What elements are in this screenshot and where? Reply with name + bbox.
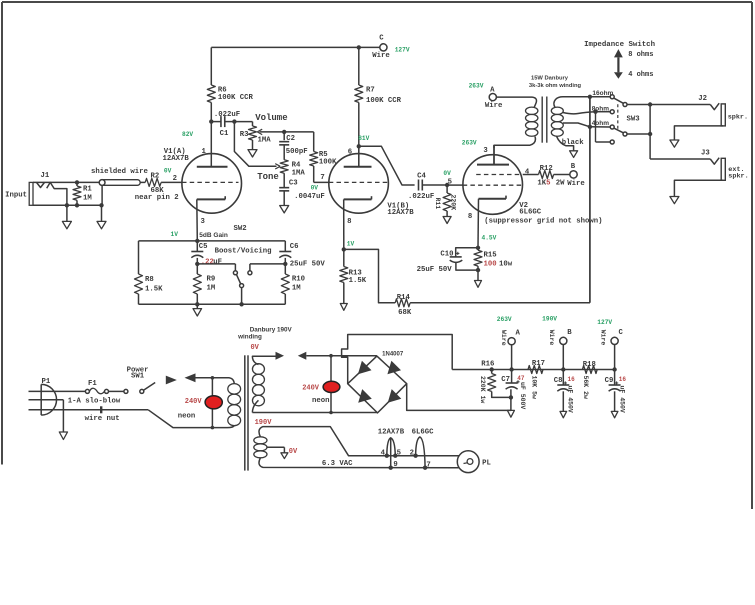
svg-text:220K: 220K bbox=[449, 195, 456, 211]
svg-text:C4: C4 bbox=[417, 173, 426, 181]
svg-text:190V: 190V bbox=[542, 316, 557, 323]
svg-text:8: 8 bbox=[347, 218, 351, 226]
svg-text:82V: 82V bbox=[182, 131, 193, 138]
svg-text:SW1: SW1 bbox=[131, 373, 145, 381]
svg-text:C6: C6 bbox=[290, 243, 299, 251]
svg-text:R15: R15 bbox=[484, 251, 497, 259]
svg-text:R2: R2 bbox=[151, 173, 160, 181]
svg-text:10w: 10w bbox=[499, 261, 513, 269]
svg-text:.022uF: .022uF bbox=[214, 111, 240, 119]
svg-text:Input: Input bbox=[5, 191, 27, 199]
svg-text:R5: R5 bbox=[319, 151, 328, 159]
svg-text:4.5V: 4.5V bbox=[482, 235, 497, 242]
svg-text:56K 2w: 56K 2w bbox=[582, 376, 589, 400]
svg-text:SW3: SW3 bbox=[627, 116, 641, 124]
svg-text:Wire: Wire bbox=[600, 330, 607, 346]
svg-text:8ohm: 8ohm bbox=[592, 105, 610, 112]
svg-text:240V: 240V bbox=[185, 398, 203, 406]
svg-text:0V: 0V bbox=[311, 185, 319, 192]
svg-text:1V: 1V bbox=[171, 231, 179, 238]
svg-text:R18: R18 bbox=[583, 361, 596, 369]
svg-text:263V: 263V bbox=[469, 82, 484, 89]
svg-text:R10: R10 bbox=[292, 275, 305, 283]
svg-text:uF 450V: uF 450V bbox=[618, 386, 625, 413]
svg-text:Wire: Wire bbox=[485, 102, 503, 110]
svg-text:263V: 263V bbox=[497, 316, 512, 323]
svg-text:black: black bbox=[562, 139, 585, 147]
svg-text:220K 1w: 220K 1w bbox=[479, 376, 486, 403]
svg-text:7: 7 bbox=[320, 174, 324, 182]
svg-text:127V: 127V bbox=[395, 46, 410, 53]
svg-text:127V: 127V bbox=[597, 319, 612, 326]
svg-text:C5: C5 bbox=[199, 243, 208, 251]
svg-text:100: 100 bbox=[484, 261, 497, 269]
svg-text:near pin 2: near pin 2 bbox=[135, 194, 179, 202]
svg-text:PL: PL bbox=[482, 459, 491, 467]
svg-text:uF: uF bbox=[213, 258, 222, 266]
svg-text:R3: R3 bbox=[240, 131, 249, 139]
svg-text:R16: R16 bbox=[481, 361, 494, 369]
svg-text:F1: F1 bbox=[88, 380, 97, 388]
svg-text:2: 2 bbox=[410, 450, 414, 458]
svg-text:J1: J1 bbox=[41, 172, 50, 180]
svg-text:1.5K: 1.5K bbox=[145, 285, 163, 293]
svg-text:Tone: Tone bbox=[257, 172, 279, 182]
svg-text:5dB Gain: 5dB Gain bbox=[199, 232, 228, 239]
svg-text:3: 3 bbox=[201, 218, 206, 226]
svg-text:5: 5 bbox=[448, 178, 452, 186]
svg-text:Boost/Voicing: Boost/Voicing bbox=[215, 247, 272, 255]
svg-text:C1: C1 bbox=[220, 130, 229, 138]
svg-text:R7: R7 bbox=[366, 87, 375, 95]
svg-text:R12: R12 bbox=[540, 165, 553, 173]
svg-text:100K CCR: 100K CCR bbox=[218, 94, 254, 102]
svg-text:Wire: Wire bbox=[372, 52, 390, 60]
svg-text:6: 6 bbox=[348, 149, 352, 157]
svg-text:6L6GC: 6L6GC bbox=[519, 209, 542, 217]
svg-text:R1: R1 bbox=[83, 186, 92, 194]
svg-text:4: 4 bbox=[525, 168, 530, 176]
svg-text:0V: 0V bbox=[289, 448, 298, 456]
svg-text:(suppressor grid not shown): (suppressor grid not shown) bbox=[484, 217, 602, 225]
svg-text:C7: C7 bbox=[501, 376, 510, 384]
svg-text:Wire: Wire bbox=[548, 330, 555, 346]
svg-text:25uF 50V: 25uF 50V bbox=[417, 266, 453, 274]
svg-text:neon: neon bbox=[312, 397, 330, 405]
svg-text:A: A bbox=[516, 330, 521, 338]
svg-text:47: 47 bbox=[517, 375, 525, 382]
svg-text:C10: C10 bbox=[440, 250, 453, 258]
svg-text:1MA: 1MA bbox=[258, 136, 272, 144]
svg-text:5: 5 bbox=[546, 180, 550, 188]
svg-text:0V: 0V bbox=[164, 167, 172, 174]
svg-text:shielded wire: shielded wire bbox=[91, 168, 149, 176]
svg-text:1V: 1V bbox=[347, 241, 355, 248]
svg-text:1MA: 1MA bbox=[292, 170, 306, 178]
svg-text:16: 16 bbox=[619, 376, 627, 383]
svg-text:240V: 240V bbox=[302, 385, 320, 393]
svg-text:spkr.: spkr. bbox=[728, 113, 748, 121]
svg-text:7: 7 bbox=[426, 461, 430, 469]
svg-text:25uF 50V: 25uF 50V bbox=[290, 260, 326, 268]
svg-text:R9: R9 bbox=[207, 275, 216, 283]
svg-text:81V: 81V bbox=[358, 135, 369, 142]
svg-text:C: C bbox=[619, 329, 624, 337]
svg-text:1.5K: 1.5K bbox=[349, 277, 367, 285]
svg-text:4: 4 bbox=[381, 450, 386, 458]
svg-text:6.3 VAC: 6.3 VAC bbox=[322, 460, 353, 468]
svg-text:1-A slo-blow: 1-A slo-blow bbox=[68, 397, 121, 405]
svg-text:2W: 2W bbox=[556, 180, 565, 188]
svg-text:263V: 263V bbox=[462, 139, 477, 146]
svg-text:1M: 1M bbox=[83, 195, 92, 203]
svg-text:winding: winding bbox=[237, 334, 262, 341]
svg-text:1: 1 bbox=[202, 148, 207, 156]
svg-text:8: 8 bbox=[468, 213, 472, 221]
svg-text:12AX7B: 12AX7B bbox=[378, 429, 405, 437]
svg-text:Danbury 190V: Danbury 190V bbox=[250, 327, 293, 334]
svg-text:15W Danbury: 15W Danbury bbox=[531, 76, 569, 82]
svg-text:68K: 68K bbox=[398, 309, 412, 317]
svg-text:0V: 0V bbox=[443, 170, 451, 177]
svg-text:C9: C9 bbox=[605, 377, 614, 385]
svg-text:.22: .22 bbox=[201, 258, 214, 266]
svg-text:5: 5 bbox=[397, 450, 401, 458]
svg-text:100K CCR: 100K CCR bbox=[366, 97, 402, 105]
svg-text:R17: R17 bbox=[532, 360, 545, 368]
svg-text:A: A bbox=[490, 87, 495, 95]
svg-text:4 ohms: 4 ohms bbox=[628, 71, 653, 79]
svg-text:1N4007: 1N4007 bbox=[382, 351, 404, 357]
svg-text:Volume: Volume bbox=[255, 113, 287, 123]
svg-text:.0047uF: .0047uF bbox=[294, 193, 325, 201]
svg-text:3k-3k ohm winding: 3k-3k ohm winding bbox=[529, 83, 582, 89]
svg-text:12AX7B: 12AX7B bbox=[387, 209, 414, 217]
svg-text:R14: R14 bbox=[397, 294, 411, 302]
svg-text:R8: R8 bbox=[145, 276, 154, 284]
svg-text:spkr.: spkr. bbox=[728, 173, 748, 181]
svg-text:10K 5w: 10K 5w bbox=[531, 376, 538, 400]
svg-text:J2: J2 bbox=[698, 95, 707, 103]
svg-text:500pF: 500pF bbox=[286, 148, 308, 156]
svg-text:B: B bbox=[571, 163, 576, 171]
svg-text:0V: 0V bbox=[250, 344, 259, 352]
svg-text:.022uF: .022uF bbox=[408, 193, 434, 201]
svg-text:1M: 1M bbox=[207, 285, 216, 293]
svg-text:4ohm: 4ohm bbox=[592, 120, 610, 127]
svg-text:Wire: Wire bbox=[567, 180, 585, 188]
svg-text:C: C bbox=[379, 35, 384, 43]
svg-text:wire nut: wire nut bbox=[85, 415, 120, 423]
svg-text:neon: neon bbox=[178, 413, 196, 421]
svg-text:C3: C3 bbox=[289, 179, 298, 187]
svg-text:6L6GC: 6L6GC bbox=[412, 429, 435, 437]
svg-text:R11: R11 bbox=[434, 198, 441, 210]
svg-text:SW2: SW2 bbox=[234, 225, 247, 233]
svg-text:J3: J3 bbox=[701, 149, 710, 157]
svg-text:16: 16 bbox=[568, 376, 576, 383]
svg-text:12AX7B: 12AX7B bbox=[163, 155, 190, 163]
svg-text:Wire: Wire bbox=[500, 330, 507, 346]
svg-text:3: 3 bbox=[483, 147, 488, 155]
svg-text:B: B bbox=[567, 329, 572, 337]
svg-text:190V: 190V bbox=[255, 419, 273, 427]
svg-text:1M: 1M bbox=[292, 285, 301, 293]
svg-text:Impedance Switch: Impedance Switch bbox=[584, 41, 655, 49]
svg-text:8 ohms: 8 ohms bbox=[628, 51, 653, 59]
svg-text:uF 450V: uF 450V bbox=[566, 386, 573, 413]
svg-text:R4: R4 bbox=[292, 161, 301, 169]
svg-text:2: 2 bbox=[173, 175, 177, 183]
svg-text:uF 500V: uF 500V bbox=[519, 382, 526, 409]
svg-text:C2: C2 bbox=[286, 135, 295, 143]
svg-text:9: 9 bbox=[393, 461, 397, 469]
svg-text:C8: C8 bbox=[554, 377, 563, 385]
